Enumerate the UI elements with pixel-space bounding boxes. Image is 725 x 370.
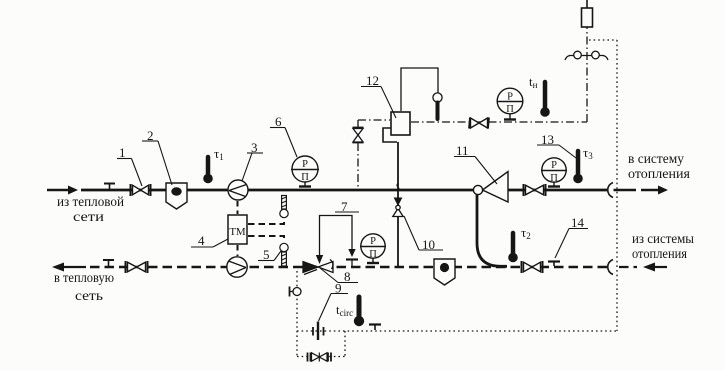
valve on return right bbox=[522, 261, 543, 273]
svg-text:11: 11 bbox=[456, 143, 469, 158]
wire TM to return sensor dashed bbox=[248, 236, 284, 242]
svg-text:ТМ: ТМ bbox=[229, 226, 246, 238]
svg-text:П: П bbox=[369, 249, 377, 260]
check valve 10 bbox=[393, 205, 403, 216]
pressure gauge 13 bbox=[541, 158, 567, 187]
text: в тепловую сеть bbox=[54, 271, 114, 304]
wire vertical bypass line with check valve bbox=[397, 142, 399, 266]
pressure regulator with two heads bbox=[565, 51, 608, 60]
pressure gauge 6 bbox=[291, 156, 319, 187]
wire return outlet arrow bbox=[52, 263, 86, 272]
svg-text:Р: Р bbox=[551, 160, 557, 171]
text: в систему отопления bbox=[628, 152, 691, 182]
svg-text:4: 4 bbox=[198, 233, 205, 248]
wire dotted bottom horizontal bbox=[297, 330, 617, 332]
pump 3 bbox=[228, 180, 248, 200]
valve on supply right bbox=[524, 184, 546, 196]
svg-text:отопления: отопления bbox=[628, 167, 691, 182]
leader label 1 bbox=[117, 159, 142, 187]
svg-text:10: 10 bbox=[422, 237, 435, 252]
svg-text:5: 5 bbox=[263, 247, 270, 262]
wire return pipe right arrow bbox=[619, 263, 667, 272]
svg-text:14: 14 bbox=[571, 215, 585, 230]
wire dotted bypass right vertical bbox=[344, 331, 346, 357]
pointer bracket 7 with arrows bbox=[316, 216, 358, 267]
svg-text:Р: Р bbox=[370, 236, 376, 247]
leader label 13 bbox=[537, 145, 576, 158]
outdoor sensor on wire bbox=[433, 93, 442, 119]
pressure gauge on impulse line bbox=[497, 88, 524, 119]
thermometer t_circ bbox=[354, 297, 364, 326]
svg-text:8: 8 bbox=[344, 269, 351, 284]
wire dash-dot vertical right up bbox=[586, 27, 588, 122]
leader label 9 bbox=[319, 294, 349, 322]
wire dash-dot controller right bbox=[411, 121, 587, 123]
leader label 11 bbox=[454, 157, 497, 185]
svg-text:из системы: из системы bbox=[632, 232, 695, 247]
wire return pipe dashed bbox=[90, 266, 607, 268]
svg-text:Р: Р bbox=[302, 159, 308, 170]
thermometer tau3 bbox=[573, 151, 583, 183]
svg-text:12: 12 bbox=[366, 73, 379, 88]
crossing hook on supply pipe bbox=[608, 183, 613, 198]
wire TM to lower pump dashed bbox=[237, 245, 239, 256]
crossing hook on return pipe bbox=[608, 260, 613, 275]
svg-text:в систему: в систему bbox=[628, 152, 684, 167]
svg-text:П: П bbox=[550, 173, 558, 184]
expansion device rectangle top bbox=[586, 0, 588, 8]
thermometer t_n bbox=[540, 82, 550, 117]
wire dotted bottom loop bbox=[297, 356, 345, 358]
greek tau labels bbox=[214, 74, 593, 318]
svg-text:1: 1 bbox=[119, 145, 126, 160]
drain cock on branch bbox=[290, 287, 302, 297]
text: из тепловой сети bbox=[57, 195, 124, 225]
wire dash-dot controller left bbox=[358, 119, 390, 121]
wire supply inlet arrow bbox=[47, 186, 78, 195]
leader label 8 bbox=[320, 268, 358, 283]
svg-text:в тепловую: в тепловую bbox=[54, 271, 114, 286]
leader label 7 bbox=[335, 211, 359, 213]
svg-text:П: П bbox=[301, 172, 309, 183]
leader label 4 bbox=[191, 239, 228, 247]
wire mixing line thick curve bbox=[477, 195, 507, 267]
svg-text:6: 6 bbox=[275, 114, 282, 129]
heat meter TM box 4 bbox=[228, 215, 247, 244]
drain tap 14 on return bbox=[548, 262, 560, 267]
valve 1 bbox=[131, 184, 151, 196]
svg-text:2: 2 bbox=[147, 128, 154, 143]
pressure gauge on return bbox=[360, 234, 386, 263]
leader label 5 bbox=[258, 251, 281, 261]
wire TM to supply sensor dashed bbox=[248, 219, 284, 225]
leader label 3 bbox=[242, 153, 263, 181]
wire dotted boundary right vertical bbox=[616, 40, 618, 331]
leader label 14 bbox=[555, 229, 588, 259]
svg-text:9: 9 bbox=[335, 281, 342, 296]
leader label 2 bbox=[142, 141, 172, 185]
junction squiggle on supply pipe bbox=[397, 184, 399, 192]
wire dash-dot vertical to supply pipe bbox=[357, 120, 359, 127]
ejector (elevator) 11 bbox=[473, 172, 508, 203]
wire dotted drain branch vertical bbox=[296, 271, 298, 357]
controller 12 box bbox=[391, 112, 410, 135]
svg-text:из тепловой: из тепловой bbox=[57, 195, 124, 210]
flow arrow on bypass bbox=[394, 198, 403, 207]
svg-text:сеть: сеть bbox=[75, 289, 103, 304]
valve vertical on impulse line bbox=[353, 128, 364, 143]
controller step outline bbox=[383, 128, 397, 142]
number labels bbox=[119, 73, 585, 296]
leader label 12 bbox=[361, 87, 396, 119]
svg-text:Р: Р bbox=[507, 92, 513, 103]
wire pump3 to TM dashed bbox=[237, 201, 239, 214]
control valve 8 bbox=[303, 260, 333, 275]
pump lower (return) bbox=[227, 257, 247, 277]
drain tap on return pipe bbox=[103, 260, 114, 266]
wire supply right arrow bbox=[614, 186, 669, 195]
thermometer tau1 bbox=[203, 157, 213, 183]
valve on return left bbox=[126, 261, 148, 273]
svg-text:П: П bbox=[506, 104, 514, 115]
return temperature sensor 5 bbox=[280, 243, 288, 266]
thermometer tau2 bbox=[508, 233, 518, 262]
text: из системы отопления bbox=[632, 232, 695, 262]
valve on impulse line right bbox=[469, 118, 489, 129]
filter (mud trap) 2 bbox=[166, 183, 187, 209]
leader label 6 bbox=[270, 128, 297, 158]
filter on return bbox=[434, 259, 455, 285]
svg-text:сети: сети bbox=[73, 210, 105, 225]
svg-text:13: 13 bbox=[541, 132, 554, 147]
wire dotted boundary top bbox=[589, 39, 617, 41]
wire main supply pipe bbox=[81, 189, 608, 192]
svg-text:отопления: отопления bbox=[632, 247, 687, 262]
temperature sensor 9 (insertion) bbox=[313, 322, 324, 341]
svg-text:7: 7 bbox=[341, 199, 348, 214]
valve on bottom loop bbox=[308, 353, 332, 362]
wire controller to outdoor sensor bbox=[401, 68, 438, 111]
leader label 10 bbox=[404, 216, 443, 250]
supply temperature sensor (thermowell) bbox=[280, 196, 288, 218]
svg-text:3: 3 bbox=[251, 140, 258, 155]
drain tap on supply pipe bbox=[104, 184, 115, 190]
drain tap on bottom dotted line bbox=[369, 325, 381, 331]
